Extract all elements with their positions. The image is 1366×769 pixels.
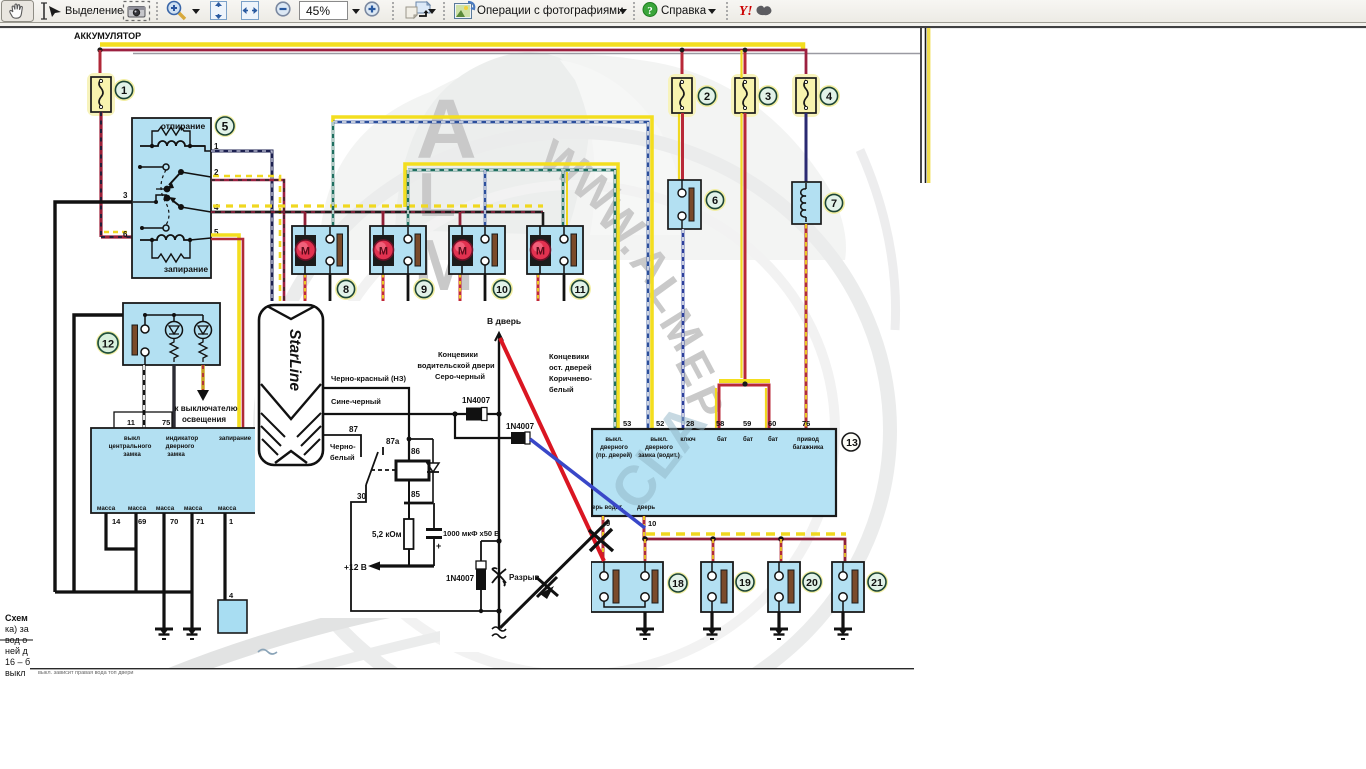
- ground symbol left A: [155, 629, 173, 639]
- camera snapshot button with dashed border: [124, 2, 150, 21]
- svg-text:+: +: [436, 541, 441, 551]
- unit 4 small box: [218, 600, 247, 633]
- svg-text:5: 5: [222, 120, 229, 134]
- wire 87a-diode top link: [409, 438, 433, 440]
- wire bus jog to box11 right: [542, 212, 545, 227]
- node bus20: [778, 536, 784, 542]
- wire motor11 below stubs: [538, 274, 564, 303]
- wire contact87: [323, 435, 361, 457]
- svg-text:водительской двери: водительской двери: [417, 361, 495, 370]
- wire pin4 bus dark: [211, 211, 543, 214]
- wire bus to sw18: [644, 539, 647, 562]
- node D1 anode: [452, 411, 457, 416]
- scan top border: [0, 27, 1366, 29]
- door wire arrow up: [495, 333, 503, 345]
- relay5 contact top: [138, 164, 169, 170]
- wire fuse3 pi-split yellow: [719, 379, 770, 383]
- svg-text:выкл.: выкл.: [650, 437, 668, 443]
- svg-text:багажника: багажника: [793, 444, 824, 451]
- zoom percent combobox 45%: [300, 2, 348, 20]
- node battery junction: [97, 47, 102, 52]
- circle label 6: [704, 189, 726, 211]
- node D4 bottom: [479, 609, 483, 613]
- node pi junction: [742, 381, 747, 386]
- circle label 5: [214, 115, 236, 137]
- battery yellow bus: [100, 45, 803, 51]
- label black-white wire: [330, 442, 356, 462]
- svg-text:Y!: Y!: [739, 3, 753, 18]
- selection tool icon: I-beam + arrow: [41, 3, 61, 19]
- ground symbol left B: [183, 629, 201, 639]
- wire break squiggle: [492, 627, 506, 638]
- svg-text:1000 мкФ х50 В: 1000 мкФ х50 В: [443, 529, 500, 538]
- pin labels below control box: [112, 517, 233, 526]
- circle label 21: [866, 571, 888, 593]
- svg-text:18: 18: [672, 578, 684, 590]
- wire bus to sw21 striped: [844, 545, 846, 562]
- watermark letters column ALME: [414, 82, 477, 352]
- wire fuse4 to comp7 blue: [805, 113, 808, 182]
- central lock switch unit box: [91, 428, 256, 513]
- svg-text:30: 30: [357, 492, 366, 501]
- pin labels above box13: [623, 419, 810, 428]
- svg-text:масса: масса: [218, 505, 237, 512]
- ground symbol sw18: [636, 629, 654, 639]
- svg-text:86: 86: [411, 447, 420, 456]
- svg-text:привод: привод: [797, 437, 819, 443]
- door bus maroon: [645, 539, 845, 562]
- pin labels relay5: [123, 142, 219, 239]
- watermark ring arcs: [260, 132, 896, 728]
- diode D2: [511, 432, 530, 444]
- svg-text:52: 52: [656, 419, 664, 428]
- svg-text:(пр. дверей): (пр. дверей): [596, 452, 632, 459]
- svg-text:4: 4: [229, 591, 234, 600]
- wire pin10 striped: [643, 516, 646, 539]
- relay5 dashed throw arc: [161, 170, 169, 225]
- svg-text:масса: масса: [97, 505, 116, 512]
- alarm overlay white panel: [255, 301, 591, 652]
- control unit 13 box: [585, 392, 836, 521]
- wire D4 top link: [481, 540, 499, 542]
- relay5 bottom coil: [140, 235, 190, 240]
- door switch 18 box: [591, 562, 663, 612]
- svg-text:2: 2: [704, 91, 710, 103]
- relay K1 coil: [396, 461, 429, 480]
- pin labels above control box: [127, 418, 170, 427]
- yahoo icon: [739, 3, 771, 18]
- svg-text:бат: бат: [717, 436, 727, 443]
- wire pin4 bus yellow dashed: [213, 204, 543, 207]
- svg-text:дверного: дверного: [600, 445, 628, 451]
- wire pin1 blue-black dashed: [211, 151, 272, 301]
- svg-text:M: M: [379, 246, 388, 258]
- wire fuse3 feed: [744, 50, 747, 78]
- svg-text:1: 1: [121, 85, 127, 97]
- svg-text:запирание: запирание: [219, 435, 252, 442]
- watermark car-body blob: [320, 52, 846, 260]
- actuator 8 box: [292, 226, 348, 274]
- ground wire sw21: [841, 612, 844, 629]
- blue wire to other doors: [530, 439, 645, 528]
- svg-text:1N4007: 1N4007: [506, 422, 535, 431]
- wire pin70 down: [162, 513, 165, 629]
- svg-text:Схем: Схем: [5, 613, 28, 623]
- node bus19: [710, 536, 716, 542]
- battery red bus: [100, 50, 806, 78]
- svg-text:ост. дверей: ост. дверей: [549, 363, 592, 372]
- relay5 contact bottom: [140, 225, 169, 231]
- gray wire under bus: [133, 53, 920, 55]
- ground symbol sw19: [703, 629, 721, 639]
- wire box12 left to ground bus: [74, 315, 123, 592]
- light switch note text: [174, 404, 237, 424]
- circle label 12: [96, 331, 120, 355]
- wire motor8 below stubs: [305, 274, 330, 301]
- +12V rail with arrow: [368, 562, 434, 571]
- wire coil85 down: [408, 480, 410, 519]
- photo operations icon: [455, 2, 475, 19]
- svg-text:АККУМУЛЯТОР: АККУМУЛЯТОР: [74, 31, 141, 41]
- svg-text:масса: масса: [156, 505, 175, 512]
- svg-text:Коричнево-: Коричнево-: [549, 374, 592, 383]
- zoom-in circle button: [365, 2, 379, 16]
- relay5 moving arm bottom: [169, 197, 211, 212]
- svg-text:76: 76: [802, 419, 810, 428]
- relay unit 5 box: [132, 118, 211, 278]
- fuse F2 halo: [668, 74, 696, 117]
- scan right border yellow strip: [927, 28, 930, 183]
- svg-text:масса: масса: [184, 505, 203, 512]
- wire H3 drop motor9: [407, 170, 410, 227]
- circle label 11: [569, 278, 591, 300]
- node door-D4: [496, 538, 501, 543]
- wire pin71 down: [190, 513, 193, 629]
- wire bus to sw20: [780, 539, 783, 562]
- svg-text:В дверь: В дверь: [487, 316, 521, 326]
- diode D1: [466, 408, 487, 421]
- wire H2 left drop to motor8 teal: [332, 122, 335, 227]
- svg-text:M: M: [458, 246, 467, 258]
- wire battery to fuse1: [99, 50, 102, 78]
- svg-text:Черно-: Черно-: [330, 442, 356, 451]
- svg-text:85: 85: [411, 490, 420, 499]
- strike line over note: [0, 639, 33, 641]
- circle label 10: [491, 278, 513, 300]
- wire motor9 below stubs: [383, 274, 408, 301]
- svg-text:10: 10: [496, 284, 508, 296]
- node bus-fuse2: [680, 48, 685, 53]
- svg-text:Разрыв: Разрыв: [509, 573, 539, 582]
- wire pin69 down: [134, 513, 137, 592]
- circle label 3: [757, 85, 779, 107]
- pin labels below box13: [606, 519, 656, 528]
- diode D4 vertical: [476, 541, 486, 611]
- scan bottom border: [30, 668, 914, 669]
- circle label 20: [801, 571, 823, 593]
- svg-text:бат: бат: [743, 436, 753, 443]
- magnifier zoom icon: [168, 2, 186, 20]
- svg-text:ка) за: ка) за: [5, 624, 29, 634]
- ground wire sw18: [643, 612, 646, 629]
- svg-text:выкл: выкл: [5, 668, 26, 678]
- svg-text:6: 6: [123, 230, 128, 239]
- svg-text:дверного: дверного: [166, 443, 195, 450]
- circle label 18: [667, 572, 689, 594]
- svg-text:16 – б: 16 – б: [5, 657, 30, 667]
- wire comp6 to pin28 blue dashed: [682, 229, 685, 429]
- wire contact30 down: [351, 485, 498, 611]
- wire D1 to door line: [487, 413, 499, 415]
- svg-text:7: 7: [831, 198, 837, 210]
- wire branch to D2: [455, 414, 511, 438]
- fit-width button: [242, 2, 259, 20]
- svg-text:6: 6: [712, 195, 718, 207]
- label other doors switch: [549, 352, 592, 394]
- ground symbol sw20: [770, 629, 788, 639]
- svg-text:Концевики: Концевики: [438, 350, 478, 359]
- svg-text:1N4007: 1N4007: [446, 574, 475, 583]
- relay5 bottom resistor: [152, 240, 190, 262]
- indicator unit 12 box: [123, 303, 220, 365]
- wire H2 yellow loop: [333, 117, 652, 429]
- fuse F1 halo: [87, 73, 115, 116]
- svg-text:Черно-красный (НЗ): Черно-красный (НЗ): [331, 374, 407, 383]
- label driver door switch: [417, 350, 495, 381]
- wire pin2 red dashed: [211, 176, 284, 301]
- svg-text:замка (водит.): замка (водит.): [638, 453, 679, 459]
- svg-text:бат: бат: [768, 436, 778, 443]
- svg-text:запирание: запирание: [164, 264, 208, 274]
- wire fuse3 down long: [742, 50, 746, 382]
- fuse F2: [672, 78, 692, 113]
- ground symbol sw21: [834, 629, 852, 639]
- wire pin9 striped: [602, 516, 605, 562]
- node bus18: [642, 536, 648, 542]
- page setup icon: [406, 2, 430, 18]
- watermark arc text WWW.ALMERA: [531, 129, 742, 463]
- wire pin5 yellow: [211, 235, 239, 428]
- wire H3 drop motor10: [484, 170, 487, 227]
- wire coil85 node bar: [404, 502, 433, 505]
- switch dashed link to relay: [371, 469, 396, 471]
- svg-text:3: 3: [765, 91, 771, 103]
- node bus-fuse3: [743, 48, 748, 53]
- node 87a junction: [407, 437, 412, 442]
- circle label 9: [413, 278, 435, 300]
- ground wire sw19: [710, 612, 713, 629]
- jumper cut X 1: [536, 577, 558, 597]
- circle label 13: [842, 433, 860, 451]
- wire pin14 loop: [106, 513, 136, 549]
- fuse F3: [735, 78, 755, 113]
- relay5 bottom nodes: [150, 238, 154, 242]
- zoom-out circle button: [276, 2, 290, 16]
- svg-text:75: 75: [162, 418, 170, 427]
- svg-text:69: 69: [138, 517, 146, 526]
- svg-text:выкл. зависит правая вода топ: выкл. зависит правая вода топ двери: [38, 670, 133, 676]
- door wire vertical: [498, 336, 500, 629]
- svg-text:60: 60: [768, 419, 776, 428]
- comp 7 relay coil: [792, 182, 821, 224]
- svg-text:58: 58: [716, 419, 724, 428]
- svg-text:53: 53: [623, 419, 631, 428]
- svg-text:замка: замка: [123, 451, 141, 458]
- wire blue-black horizontal: [323, 413, 466, 415]
- red wire to driver door: [500, 338, 604, 561]
- relay5 center pole: [133, 186, 170, 204]
- wire H3 teal dashed: [408, 170, 615, 429]
- svg-text:3: 3: [123, 191, 128, 200]
- fuse F3 halo: [731, 74, 759, 117]
- wire bus to sw19: [712, 539, 715, 562]
- svg-text:8: 8: [343, 284, 349, 296]
- relay5 moving arm top: [166, 169, 211, 189]
- capacitor C1: [426, 503, 442, 566]
- door switch 21 box: [832, 562, 864, 612]
- svg-text:20: 20: [806, 577, 818, 589]
- svg-text:5,2 кОм: 5,2 кОм: [372, 530, 402, 539]
- relay5 top resistor: [152, 127, 190, 146]
- svg-text:12: 12: [102, 339, 114, 351]
- diode D3 across coil: [427, 439, 439, 503]
- svg-text:M: M: [536, 246, 545, 258]
- door switch 19 box: [701, 562, 733, 612]
- svg-text:масса: масса: [128, 505, 147, 512]
- wire fuse2 to comp6: [679, 113, 683, 180]
- wire fuse3 pi-split red: [716, 388, 766, 429]
- wire H3 yellow loop: [405, 164, 618, 429]
- fit-height button: [211, 2, 227, 20]
- help icon: [643, 3, 657, 18]
- note text block bottom-left: [5, 613, 30, 678]
- svg-text:70: 70: [170, 517, 178, 526]
- svg-text:Серо-черный: Серо-черный: [435, 372, 485, 381]
- node door line top: [496, 411, 501, 416]
- svg-text:StarLine: StarLine: [286, 329, 303, 391]
- svg-text:замка: замка: [167, 451, 185, 458]
- wire box12 pin75 dark: [172, 365, 175, 428]
- svg-text:Концевики: Концевики: [549, 352, 589, 361]
- svg-text:ключ: ключ: [680, 437, 696, 443]
- circle label 4: [818, 85, 840, 107]
- wire pin3 black to ground bus: [55, 202, 132, 592]
- black jumper diagonal: [500, 520, 609, 628]
- svg-text:дверного: дверного: [645, 445, 673, 451]
- svg-text:9: 9: [421, 284, 427, 296]
- scan right border double line: [921, 28, 926, 183]
- wire R1 to +12 rail: [408, 549, 410, 566]
- svg-text:1N4007: 1N4007: [462, 396, 491, 405]
- door bus yellow dashed: [646, 532, 846, 536]
- wire bus drops to motor left pins: [305, 212, 460, 227]
- switch throw arm: [366, 447, 383, 485]
- comp 6 door switch: [668, 180, 701, 229]
- wire relay5 pin1 internal: [190, 146, 211, 151]
- wire box12 lamp to light switch: [197, 365, 209, 401]
- door switch 20 box: [768, 562, 800, 612]
- resistor R1: [404, 519, 414, 549]
- circle label 1: [113, 79, 135, 101]
- jumper cut X 2: [589, 529, 613, 551]
- svg-text:11: 11: [574, 284, 585, 296]
- circle label 8: [335, 278, 357, 300]
- svg-text:13: 13: [846, 437, 858, 449]
- svg-text:M: M: [301, 246, 310, 258]
- StarLine unit U1 logo box: [259, 305, 323, 465]
- wire motor10 below stubs: [460, 274, 485, 305]
- wire pin5 red: [211, 239, 243, 428]
- svg-text:индикатор: индикатор: [166, 435, 199, 442]
- svg-text:?: ?: [647, 5, 653, 17]
- relay5 coil nodes: [150, 144, 154, 148]
- fuse F4 halo: [792, 74, 820, 117]
- svg-text:выкл: выкл: [124, 435, 140, 442]
- svg-text:28: 28: [686, 419, 694, 428]
- svg-text:белый: белый: [330, 453, 355, 462]
- svg-text:1: 1: [229, 517, 233, 526]
- svg-text:выкл.: выкл.: [605, 437, 623, 443]
- svg-text:освещения: освещения: [182, 415, 226, 424]
- node bottom rail: [496, 608, 501, 613]
- callout rectangle pins 11-75: [114, 412, 172, 450]
- cut mark Razryv: [492, 568, 506, 586]
- wire pin1 to unit4: [223, 513, 226, 601]
- wire relay5 pin5 internal: [190, 238, 211, 240]
- svg-text:4: 4: [826, 91, 833, 103]
- actuator 11 box: [527, 226, 583, 274]
- actuator 9 box: [370, 226, 426, 274]
- hand tool button (pressed): [2, 1, 34, 22]
- svg-text:центрального: центрального: [109, 443, 152, 450]
- svg-text:71: 71: [196, 517, 204, 526]
- wire fuse1 down striped: [101, 112, 133, 237]
- svg-text:21: 21: [871, 577, 883, 589]
- actuator 10 box: [449, 226, 505, 274]
- wire H3 drop motor11: [563, 170, 567, 227]
- jumper arrowhead 1: [540, 586, 554, 599]
- svg-text:дверь: дверь: [637, 505, 655, 511]
- ground bus horizontal: [55, 590, 192, 593]
- svg-text:Сине-черный: Сине-черный: [331, 397, 381, 406]
- small gray squiggle artifact: [258, 650, 277, 655]
- svg-text:белый: белый: [549, 385, 574, 394]
- svg-text:11: 11: [127, 418, 135, 427]
- fuse F1: [91, 77, 111, 112]
- svg-text:ней д: ней д: [5, 646, 29, 656]
- circle label 19: [734, 571, 756, 593]
- wire fuse2 feed: [681, 50, 684, 78]
- wire box12 pin11 dashed: [143, 365, 146, 428]
- svg-text:к выключателю: к выключателю: [174, 404, 237, 413]
- wire comp7 to pin76 striped: [805, 224, 808, 429]
- fuse F4: [796, 78, 816, 113]
- svg-text:10: 10: [648, 519, 656, 528]
- svg-text:59: 59: [743, 419, 751, 428]
- circle label 7: [823, 192, 845, 214]
- svg-text:+12 В: +12 В: [344, 562, 367, 572]
- svg-text:45%: 45%: [306, 4, 330, 18]
- svg-text:87a: 87a: [386, 437, 400, 446]
- relay5 top coil: [140, 141, 205, 146]
- wire black-red to relay86: [323, 388, 409, 461]
- wire H2 blue dashed: [333, 122, 648, 429]
- svg-text:19: 19: [739, 577, 751, 589]
- ground wire sw20: [777, 612, 780, 629]
- circle label 2: [696, 85, 718, 107]
- svg-text:14: 14: [112, 517, 121, 526]
- svg-text:87: 87: [349, 425, 358, 434]
